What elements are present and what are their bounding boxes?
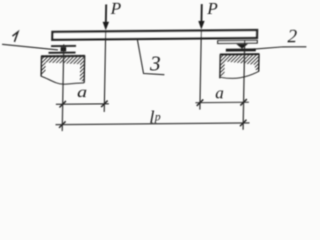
svg-text:P: P xyxy=(206,0,218,18)
svg-text:3: 3 xyxy=(149,51,161,75)
svg-text:a: a xyxy=(77,83,87,101)
svg-text:l: l xyxy=(149,107,154,127)
svg-text:p: p xyxy=(154,112,161,124)
svg-text:2: 2 xyxy=(287,26,297,47)
svg-text:P: P xyxy=(110,0,122,18)
svg-text:a: a xyxy=(215,83,224,102)
